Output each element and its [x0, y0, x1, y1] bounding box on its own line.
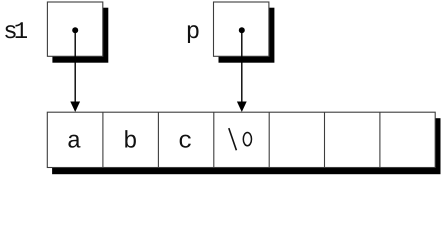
svg-text:p: p: [186, 19, 200, 46]
svg-text:b: b: [123, 129, 137, 156]
svg-text:a: a: [67, 129, 81, 156]
svg-text:c: c: [178, 129, 192, 156]
svg-text:1: 1: [14, 19, 28, 46]
